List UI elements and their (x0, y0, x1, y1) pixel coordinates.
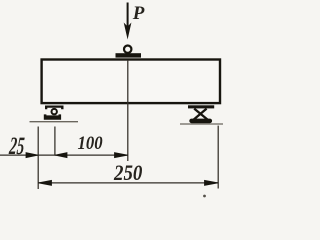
svg-text:250: 250 (113, 160, 143, 185)
svg-text:100: 100 (78, 132, 103, 153)
svg-text:P: P (132, 3, 145, 24)
svg-text:25: 25 (7, 133, 25, 160)
